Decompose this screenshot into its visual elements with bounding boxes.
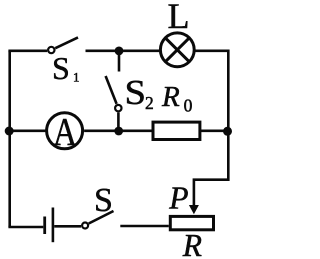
rheostat R: [170, 216, 213, 229]
node junction at S2 bottom: [114, 127, 123, 136]
wire middle row right segment: [201, 130, 230, 133]
switch S2: [106, 76, 122, 131]
wire top row left segment: [8, 49, 47, 52]
slider arrow P: [189, 205, 199, 214]
svg-text:1: 1: [73, 70, 80, 85]
switch S1: [48, 37, 78, 53]
node junction middle-right: [223, 127, 232, 136]
resistor R0: [153, 122, 200, 139]
wire right vertical lower + step to slider: [194, 131, 228, 208]
svg-text:S: S: [94, 182, 113, 219]
wire bottom row left segment: [8, 226, 43, 229]
svg-text:R: R: [182, 228, 202, 259]
wire middle row center segment: [84, 130, 152, 133]
wire bottom row right segment: [120, 225, 169, 228]
wire bottom row between battery and switch: [54, 225, 81, 228]
node junction top (to S2 branch): [115, 47, 124, 56]
wire top row middle segment: [86, 49, 161, 52]
battery cell: [45, 208, 53, 243]
svg-text:S: S: [52, 50, 70, 86]
svg-text:0: 0: [184, 96, 193, 116]
svg-text:A: A: [53, 110, 77, 153]
wire left vertical: [8, 51, 11, 227]
wire middle row left segment: [9, 130, 46, 133]
wire top row right segment + right vertical upper: [194, 51, 228, 131]
svg-text:2: 2: [145, 93, 154, 113]
lamp L: [160, 33, 194, 67]
svg-text:L: L: [168, 0, 190, 36]
ammeter A: [47, 110, 83, 153]
svg-text:S: S: [125, 73, 147, 112]
svg-text:R: R: [161, 81, 180, 113]
switch S: [82, 211, 113, 229]
svg-text:P: P: [168, 181, 188, 216]
node junction middle-left: [5, 127, 14, 136]
wire S2 branch from junction: [118, 51, 121, 72]
